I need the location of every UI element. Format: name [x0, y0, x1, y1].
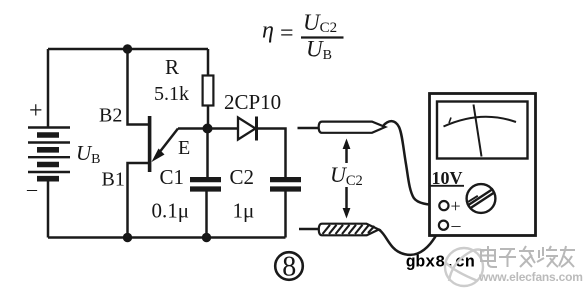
multimeter scale window	[437, 102, 528, 159]
diode 2CP10 cathode bar	[255, 117, 258, 141]
svg-text:+: +	[29, 98, 43, 124]
wire battery positive lead	[47, 49, 50, 128]
probe negative body hatched	[319, 224, 379, 236]
battery GB long plate 3	[28, 156, 70, 158]
figure number 8 circled	[275, 252, 303, 280]
svg-text:0.1μ: 0.1μ	[152, 199, 190, 223]
svg-text:UC2: UC2	[303, 10, 337, 36]
wire B2 branch	[128, 49, 149, 125]
label UC2 measured voltage	[330, 163, 366, 187]
multimeter scale arc	[444, 117, 517, 127]
wire node down to C1	[206, 129, 209, 178]
svg-text:η: η	[262, 17, 274, 43]
watermark elecfans chinese character zi	[499, 249, 516, 267]
wire diode cathode to C2	[257, 129, 286, 178]
transistor UJT base bar	[148, 116, 152, 172]
wire battery negative lead	[47, 182, 50, 238]
capacitor C1 plates	[190, 177, 221, 182]
battery GB long plate 4	[28, 171, 70, 173]
svg-text:8: 8	[282, 252, 296, 283]
wire negative probe to minus terminal	[379, 230, 440, 255]
wire C1 to bottom rail	[205, 192, 208, 238]
svg-text:C2: C2	[230, 165, 255, 189]
watermark elecfans chinese character shao	[537, 246, 558, 267]
svg-text:C1: C1	[160, 165, 185, 189]
svg-text:+: +	[451, 196, 461, 216]
watermark elecfans chinese character dian	[481, 246, 497, 267]
svg-text:–: –	[26, 178, 38, 200]
watermark elecfans chinese character you	[559, 246, 575, 267]
svg-text:www.elecfans.com: www.elecfans.com	[478, 270, 583, 284]
svg-text:E: E	[178, 137, 190, 159]
battery GB short thick plate 3	[37, 162, 59, 168]
node top junction dot	[123, 44, 132, 53]
svg-text:–: –	[451, 215, 462, 235]
multimeter scale tick	[449, 118, 451, 124]
arrow UC2 double headed	[345, 144, 348, 213]
diode 2CP10 triangle	[238, 118, 256, 140]
wire C2 to bottom rail	[284, 192, 287, 238]
node C1 bottom junction dot	[202, 233, 211, 242]
wire emitter horizontal to node	[178, 127, 208, 130]
svg-text:UB: UB	[76, 141, 101, 167]
svg-text:=: =	[280, 21, 294, 47]
multimeter case	[430, 94, 536, 236]
svg-text:5.1k: 5.1k	[154, 83, 189, 105]
wire stub to positive probe	[298, 127, 320, 130]
wire node to diode anode	[208, 127, 239, 130]
battery GB short thick plate 4	[37, 176, 59, 182]
wire top rail down to resistor	[207, 49, 210, 76]
wire bottom rail	[48, 236, 286, 239]
svg-text:B1: B1	[102, 169, 125, 191]
wire positive probe to plus terminal	[383, 121, 439, 205]
terminal plus circle	[439, 201, 448, 210]
svg-text:1μ: 1μ	[233, 199, 255, 223]
wire top rail	[48, 48, 208, 51]
watermark elecfans chinese character fa	[519, 246, 535, 267]
wire B1 branch	[128, 163, 149, 238]
wire stub to negative probe	[299, 228, 320, 231]
battery GB short thick plate 1	[37, 132, 59, 138]
svg-text:UB: UB	[306, 37, 332, 64]
battery GB short thick plate 2	[37, 147, 59, 153]
wire resistor to emitter node	[207, 106, 210, 129]
svg-text:2CP10: 2CP10	[224, 90, 281, 114]
svg-text:R: R	[165, 55, 179, 79]
watermark elecfans logo swirl	[445, 248, 484, 286]
transistor UJT emitter diagonal with arrow	[155, 129, 178, 159]
resistor R body	[203, 76, 214, 106]
node emitter junction dot	[203, 124, 213, 134]
multimeter needle	[474, 105, 482, 157]
node B1 bottom junction dot	[123, 233, 132, 242]
svg-text:B2: B2	[99, 105, 122, 127]
multimeter knob with slot	[467, 184, 496, 213]
battery GB long plate 1	[28, 126, 70, 128]
capacitor C2 plates	[270, 177, 301, 182]
probe positive body	[319, 122, 386, 133]
terminal minus circle	[439, 221, 448, 230]
battery GB long plate 2	[28, 141, 70, 143]
